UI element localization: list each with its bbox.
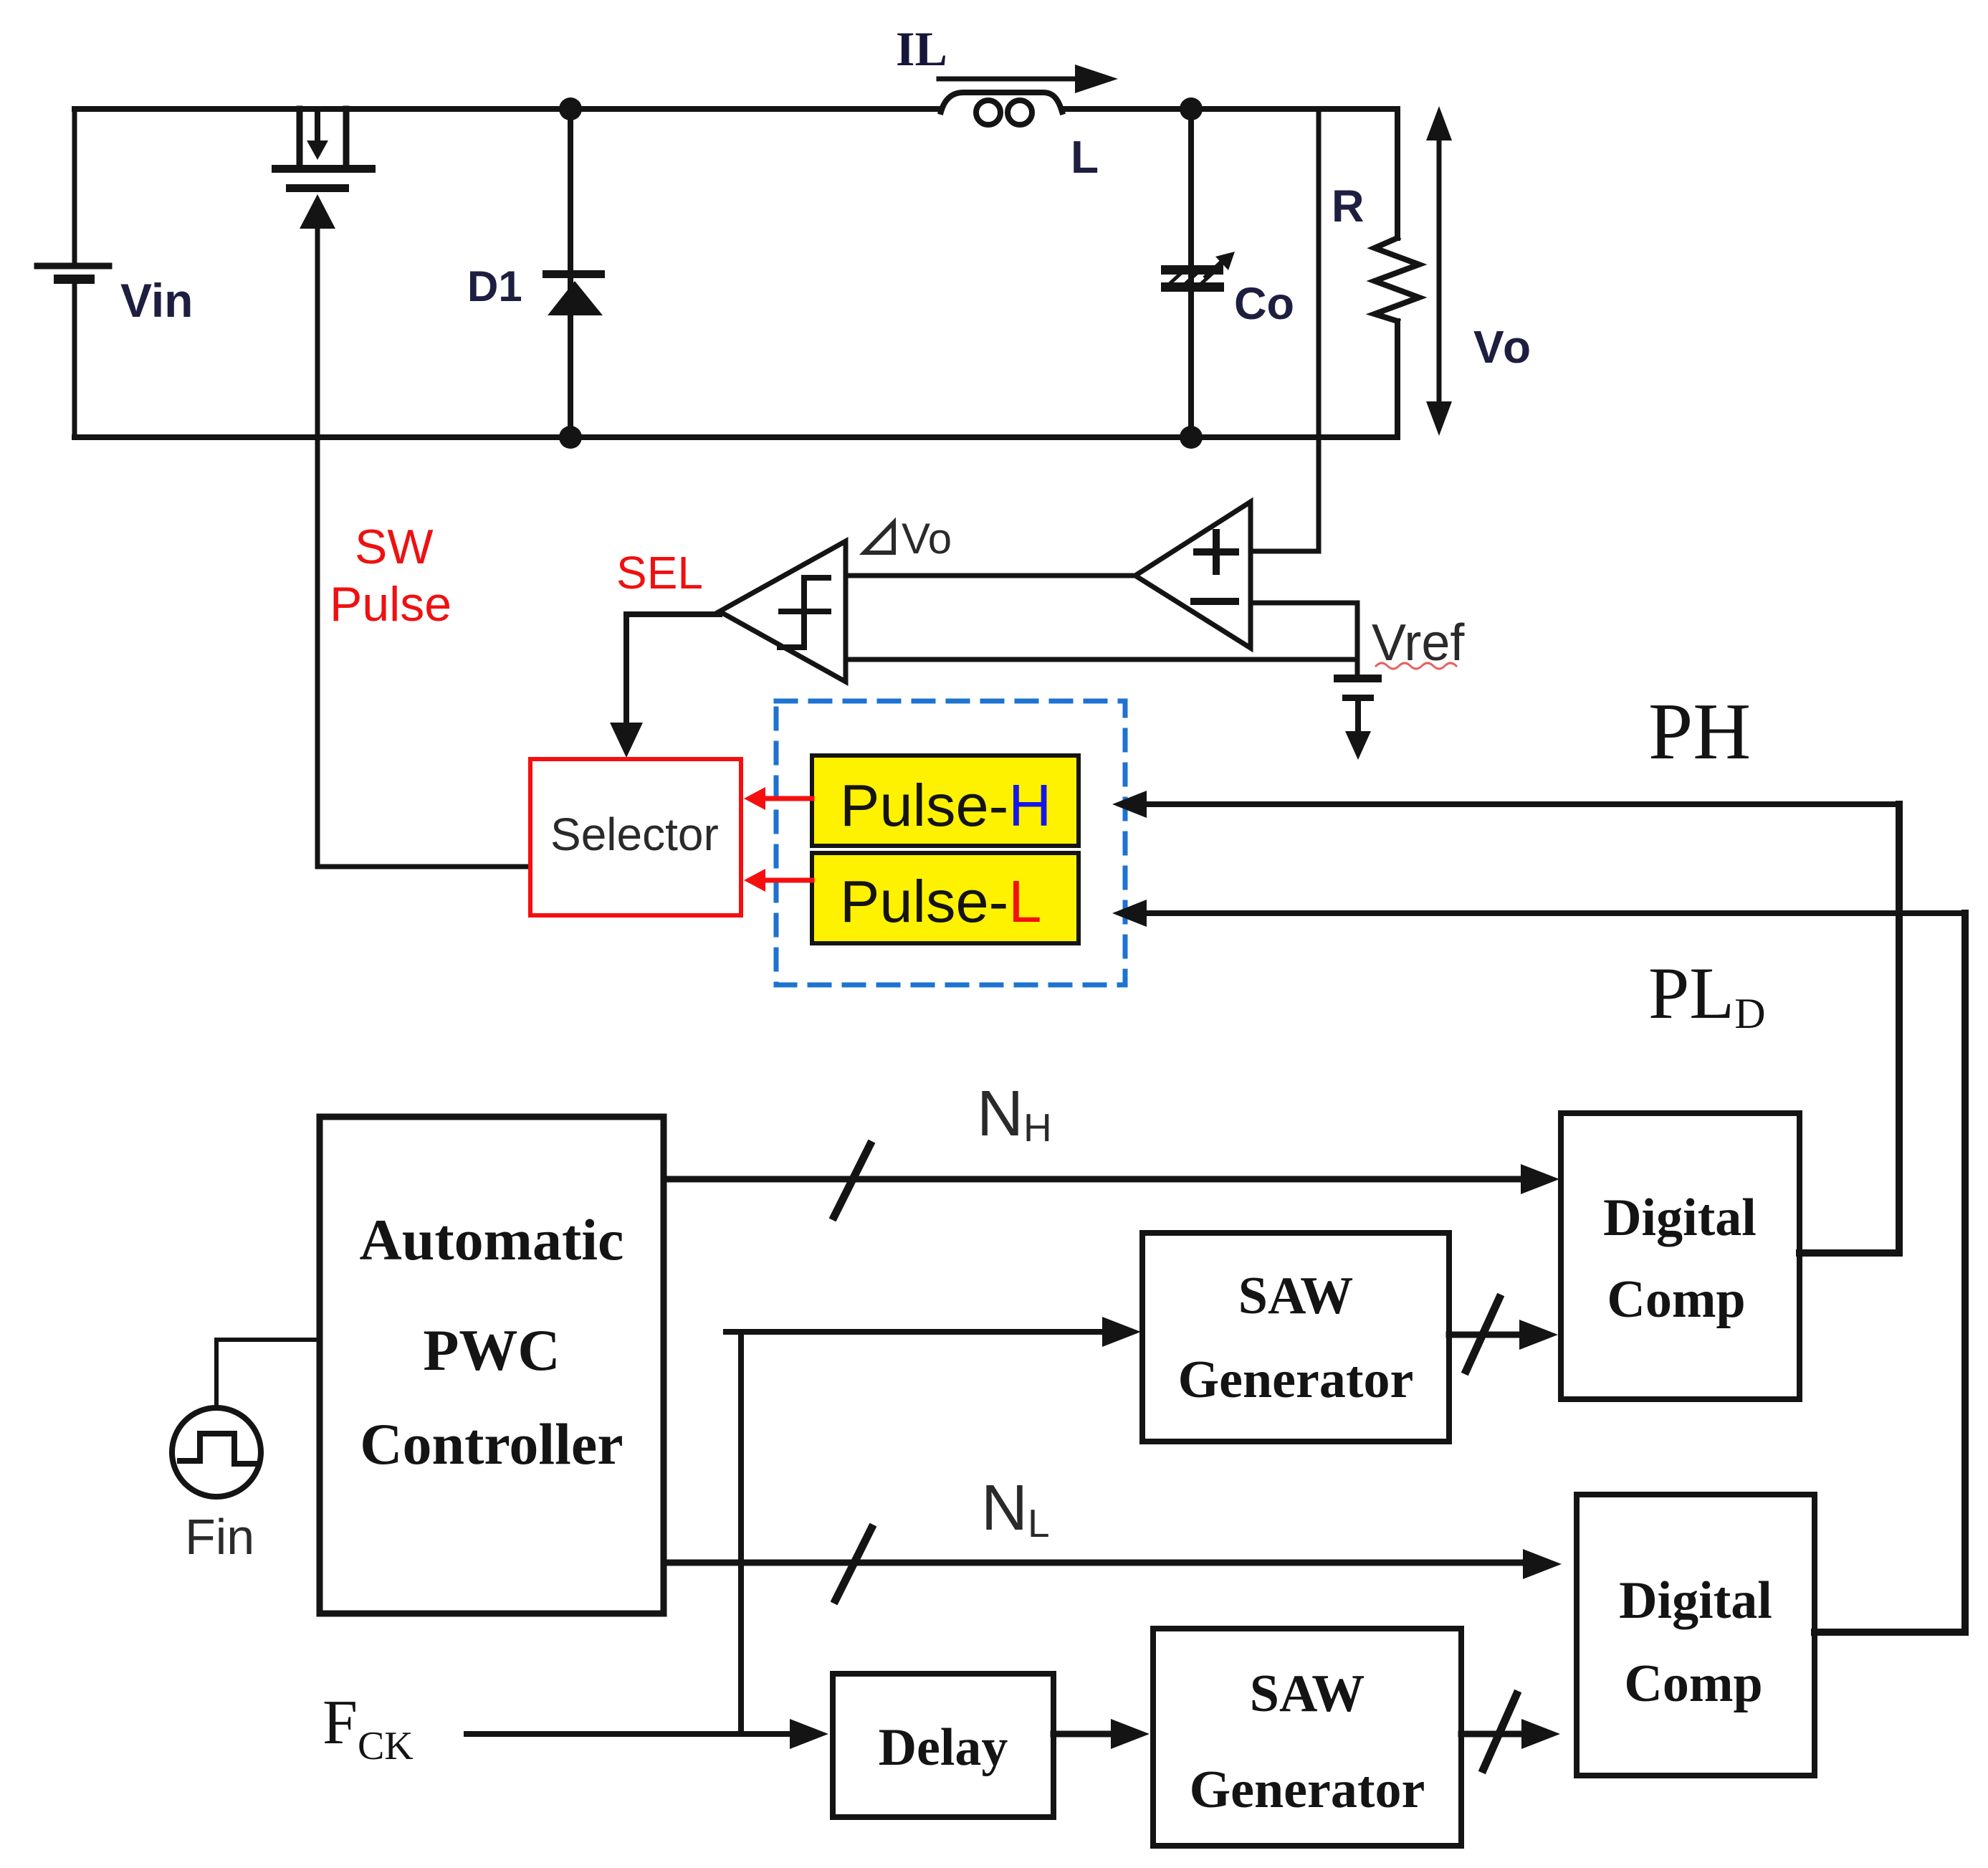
svg-text:Generator: Generator [1190, 1760, 1425, 1819]
diode D1 [543, 270, 605, 315]
red squiggle under Vref [1376, 663, 1456, 669]
wire digital comp 2 output to PLD [1815, 1629, 1965, 1636]
node dot top of D1 [559, 97, 582, 120]
svg-text:Vo: Vo [902, 515, 952, 563]
SAW generator 2 box [1153, 1629, 1461, 1846]
wire dVo (error amp out to schmitt) [846, 573, 1135, 578]
pulse-L box [812, 853, 1079, 943]
svg-text:IL: IL [896, 22, 947, 76]
wire delay to SAW generator 2 [1053, 1719, 1150, 1749]
svg-text:Vin: Vin [120, 274, 193, 327]
digital comp 1 box [1561, 1113, 1800, 1399]
wire clock riser to SAW generator 1 [726, 1317, 1141, 1734]
wire PLD (pulse-L feed line) [1112, 900, 1965, 1632]
wire feedback Vo sense [1316, 109, 1322, 551]
svg-text:Generator: Generator [1178, 1350, 1414, 1409]
wire schmitt lower input to Vref node [846, 657, 1357, 662]
svg-text:Comp: Comp [1607, 1270, 1745, 1329]
IL current arrow [939, 65, 1118, 93]
svg-text:Fin: Fin [185, 1509, 254, 1565]
svg-text:PH: PH [1648, 687, 1751, 776]
wire SW pulse (gate to selector) [315, 224, 320, 867]
svg-text:SEL: SEL [616, 547, 703, 599]
wire error-amp minus input [1251, 601, 1357, 606]
source Fin (pulse generator) [172, 1408, 261, 1497]
SAW1 output bus slash [1466, 1298, 1499, 1371]
wire SAW2 to digital comp 2 [1461, 1719, 1560, 1749]
svg-text:Digital: Digital [1619, 1571, 1772, 1630]
SW gate arrow (points up at gate) [300, 194, 335, 229]
red arrow pulse-H to selector [744, 787, 812, 810]
capacitor Co [1161, 252, 1235, 292]
wire NH bus [664, 1164, 1559, 1194]
svg-text:Delay: Delay [879, 1718, 1008, 1777]
svg-text:Vo: Vo [1473, 321, 1533, 373]
wire SAW1 to digital comp 1 [1449, 1320, 1558, 1350]
node dot bottom of D1 [559, 426, 582, 449]
digital comp 2 box [1577, 1495, 1815, 1776]
svg-text:PWC: PWC [423, 1317, 560, 1383]
battery Vin [37, 266, 109, 284]
wire error-amp plus input [1251, 549, 1319, 554]
svg-text:Pulse-L: Pulse-L [840, 868, 1041, 935]
ground Vref [1334, 675, 1382, 760]
resistor R [1375, 109, 1419, 437]
wire PH (pulse-H feed line) [1112, 791, 1899, 1253]
dashed group box [776, 701, 1125, 985]
svg-text:L: L [1071, 131, 1099, 183]
wire top rail [75, 106, 941, 112]
wire capacitor branch [1188, 109, 1194, 437]
wire Fin to controller [216, 1340, 320, 1408]
label dVo [864, 515, 952, 563]
node A (inductor output) [1180, 97, 1203, 120]
comparator U2 (Schmitt trigger) [720, 541, 846, 682]
svg-text:Selector: Selector [550, 809, 719, 860]
svg-text:SW: SW [355, 520, 434, 574]
svg-text:Digital: Digital [1603, 1188, 1757, 1247]
delay box [833, 1674, 1053, 1817]
selector box [530, 759, 741, 915]
svg-text:R: R [1332, 181, 1365, 232]
wire digital comp 1 output to PH [1800, 1249, 1899, 1257]
svg-text:Pulse-H: Pulse-H [840, 772, 1051, 839]
svg-text:Pulse: Pulse [330, 577, 451, 632]
wire diode branch [568, 109, 573, 437]
NH bus slash [834, 1145, 870, 1216]
svg-text:Automatic: Automatic [360, 1207, 624, 1272]
node dot bottom of Co [1180, 426, 1203, 449]
inductor L [941, 92, 1062, 125]
automatic PWC controller box [320, 1117, 664, 1614]
svg-text:Controller: Controller [360, 1411, 623, 1477]
NL bus slash [836, 1528, 871, 1600]
SAW2 output bus slash [1483, 1695, 1516, 1769]
svg-text:Comp: Comp [1624, 1654, 1762, 1713]
transistor M1 (PMOS switch) [272, 109, 376, 192]
svg-text:D1: D1 [467, 262, 522, 310]
pulse-H box [812, 756, 1079, 846]
wire left branch [72, 109, 77, 264]
svg-text:SAW: SAW [1238, 1267, 1353, 1325]
op-amp U1 (error amplifier) [1135, 502, 1251, 648]
red arrow pulse-L to selector [744, 869, 812, 892]
wire bottom rail [75, 434, 1397, 440]
svg-text:Co: Co [1234, 279, 1294, 329]
svg-text:SAW: SAW [1250, 1664, 1365, 1723]
wire NL bus [664, 1549, 1562, 1579]
Vo measurement arrow [1426, 106, 1452, 436]
SAW generator 1 box [1142, 1233, 1449, 1441]
wire FCK to delay [467, 1719, 828, 1749]
wire SEL output to selector [610, 614, 720, 758]
